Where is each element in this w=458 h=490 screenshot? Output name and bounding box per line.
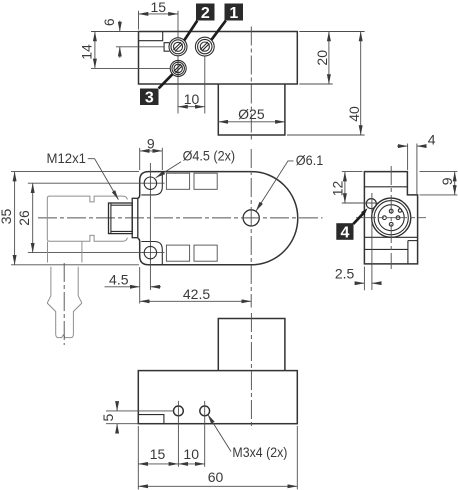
svg-text:4.5: 4.5 <box>109 272 129 288</box>
side internal step lines <box>364 187 417 264</box>
dimension 2.5 <box>335 266 381 291</box>
LED window rects front <box>166 173 217 261</box>
svg-text:3: 3 <box>145 90 154 107</box>
svg-text:4: 4 <box>340 225 349 242</box>
dimension 10 top <box>178 91 205 107</box>
mating connector hidden sides below <box>48 242 82 263</box>
svg-text:40: 40 <box>346 106 362 122</box>
bottom mounting lobe inner edge <box>141 242 162 265</box>
svg-text:15: 15 <box>151 0 167 15</box>
side vertical centerline <box>390 166 392 269</box>
rotated connector centerline <box>63 263 65 345</box>
svg-text:5: 5 <box>100 413 116 421</box>
svg-text:Ø25: Ø25 <box>238 106 265 122</box>
label Ø4.5 (2x) with leader <box>156 148 235 178</box>
dimension 4 side <box>397 132 436 196</box>
centerline cylinder top view <box>250 27 252 141</box>
potentiometer screw 1 <box>195 37 214 56</box>
mounting hole bottom Ø4.5 <box>144 246 156 258</box>
leader box2 to screw2 <box>184 21 197 41</box>
hole center extension lines (26) <box>28 163 165 290</box>
dimension 9 front <box>140 135 163 170</box>
M3 hole 1 <box>174 406 184 416</box>
rotated-down connector outline <box>48 267 82 338</box>
side view outline <box>364 172 417 264</box>
M12 flange <box>132 198 138 237</box>
svg-text:12: 12 <box>330 181 346 197</box>
potentiometer screw 3 <box>170 60 186 76</box>
svg-text:60: 60 <box>208 469 224 485</box>
dimension 20 <box>299 32 364 85</box>
svg-text:2: 2 <box>201 5 210 22</box>
svg-text:15: 15 <box>150 446 166 462</box>
top mounting lobe inner edge <box>141 172 162 195</box>
dimension Ø25 <box>218 106 285 122</box>
svg-text:M3x4 (2x): M3x4 (2x) <box>232 444 287 460</box>
bottom view cylinder <box>218 319 285 371</box>
svg-text:14: 14 <box>79 44 95 60</box>
svg-text:M12x1: M12x1 <box>47 150 87 166</box>
bottom centerline <box>250 313 252 426</box>
dimension 26 <box>16 183 33 252</box>
M12 pins <box>383 209 402 226</box>
mating connector outline <box>47 196 127 241</box>
M12 face outer ring <box>372 198 411 237</box>
leader box3 to screw3 <box>159 74 173 88</box>
svg-text:1: 1 <box>229 5 238 22</box>
dimension 6 <box>101 18 164 58</box>
label box 2 <box>196 4 215 22</box>
svg-text:42.5: 42.5 <box>183 286 210 302</box>
dimension 60 <box>138 426 297 489</box>
front vertical centerline <box>250 149 252 308</box>
screw extension lines <box>178 11 205 114</box>
leader box4 to LED <box>353 208 367 224</box>
svg-text:Ø6.1: Ø6.1 <box>296 152 324 168</box>
svg-text:26: 26 <box>16 210 32 226</box>
screw 2 tab <box>164 43 169 52</box>
dimension 40 <box>287 32 365 136</box>
svg-text:20: 20 <box>314 50 330 66</box>
label box 1 <box>225 4 244 22</box>
bottom notch step <box>138 415 164 424</box>
svg-text:9: 9 <box>147 135 155 151</box>
label box 3 <box>140 89 159 107</box>
dimension 14 <box>79 32 170 69</box>
2.5 extension through LED <box>371 193 373 290</box>
label M12x1 with leader <box>47 150 119 199</box>
dimension 15 bottom <box>138 401 178 490</box>
dimension 12 <box>330 172 378 203</box>
dimension 15 top <box>139 0 179 30</box>
sensing face hole Ø6.1 <box>243 210 259 226</box>
dimension 10 bottom <box>178 401 204 467</box>
top view cylinder Ø25 <box>218 84 285 135</box>
svg-text:4: 4 <box>428 132 436 148</box>
M3 hole 2 <box>200 406 210 416</box>
svg-text:10: 10 <box>183 446 199 462</box>
mounting hole top Ø4.5 <box>144 177 156 189</box>
M12 barrel <box>109 203 133 234</box>
side horizontal centerline <box>356 217 426 219</box>
bottom view body <box>138 371 297 424</box>
top view notch step <box>139 32 163 41</box>
label Ø6.1 with leader <box>256 152 323 211</box>
svg-text:2.5: 2.5 <box>335 266 355 282</box>
label box 4 <box>336 223 353 241</box>
dimension 42.5 <box>140 286 252 302</box>
dimension 4.5 <box>105 267 162 304</box>
LED circle side <box>366 199 376 209</box>
front horizontal centerline <box>38 217 323 219</box>
svg-text:10: 10 <box>184 91 200 107</box>
label M3x4 (2x) with leader <box>208 414 288 460</box>
svg-text:Ø4.5 (2x): Ø4.5 (2x) <box>183 148 236 164</box>
svg-text:35: 35 <box>0 209 14 225</box>
dimension 35 <box>0 172 139 265</box>
svg-text:6: 6 <box>101 18 117 26</box>
front body outline <box>138 172 298 265</box>
leader box1 to screw1 <box>211 21 226 40</box>
top view body <box>139 32 298 85</box>
dimension 5 <box>100 402 174 434</box>
potentiometer screw 2 <box>169 38 187 56</box>
svg-text:9: 9 <box>439 177 455 185</box>
dimension 9 side <box>420 172 458 195</box>
